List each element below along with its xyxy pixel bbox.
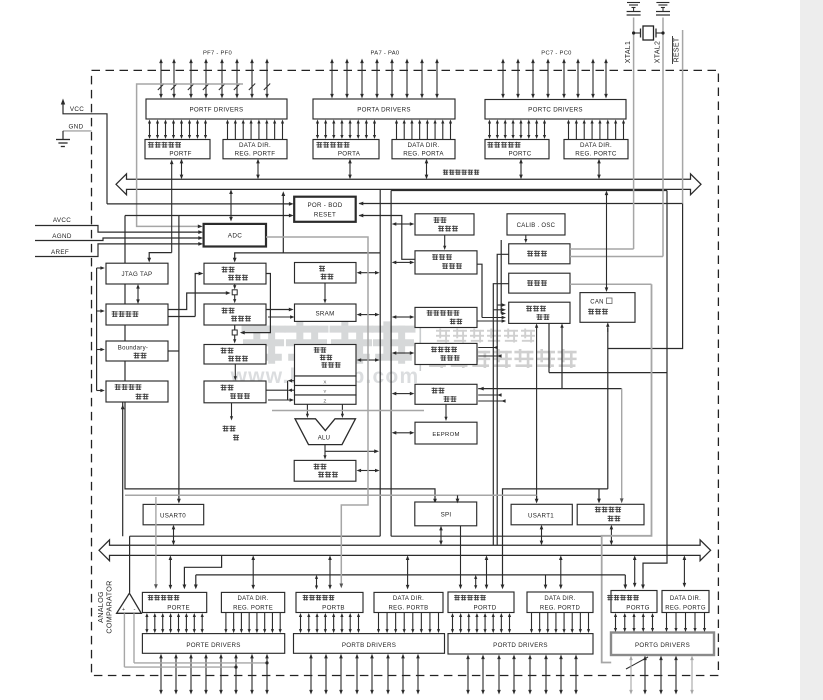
svg-text:RESET: RESET — [674, 37, 681, 62]
calib line to timing — [500, 240, 502, 314]
PORTG data direction register box — [662, 591, 709, 613]
PORTB ddr connector — [407, 559, 409, 586]
PORTD datareg connectors — [460, 526, 462, 586]
timing bottom stub to CAN loop — [548, 323, 550, 372]
svg-text:Z: Z — [323, 398, 326, 403]
registers bottom to sram wires — [268, 399, 291, 401]
xtal1 wire to osc1 — [570, 248, 634, 250]
interrupt to eeprom arrow — [445, 404, 447, 418]
POR line to USART0 wire — [178, 216, 180, 502]
program counter top wire — [235, 253, 381, 260]
svg-text:REG. PORTF: REG. PORTF — [235, 151, 276, 158]
svg-text:PORTB: PORTB — [322, 605, 345, 612]
XTAL2 pin line — [662, 18, 664, 257]
watchdog to timing wire — [477, 264, 482, 317]
PORTB pin arrows — [310, 657, 312, 691]
svg-text:COMPARATOR: COMPARATOR — [105, 580, 114, 633]
svg-text:PC7 - PC0: PC7 - PC0 — [541, 51, 571, 57]
PORTE datareg connectors — [155, 497, 157, 586]
instruction register box — [204, 345, 266, 365]
PORTB data direction register box — [374, 592, 443, 612]
mux square 1 — [234, 284, 236, 286]
JTAG-OCD arrow — [137, 288, 139, 301]
svg-text:PORTD DRIVERS: PORTD DRIVERS — [493, 642, 548, 649]
svg-text:DATA DIR.: DATA DIR. — [670, 596, 701, 602]
gray analog line top — [137, 84, 243, 226]
svg-text:PORTG: PORTG — [626, 605, 649, 612]
comparator triangle — [117, 593, 142, 613]
svg-text:REG. PORTB: REG. PORTB — [389, 606, 429, 612]
gray adc-analog route — [266, 237, 368, 586]
internal bus vertical right — [390, 191, 392, 537]
PORTE reg-driver arrows — [146, 616, 148, 630]
ocd to pc wire — [168, 316, 195, 318]
SPI box — [415, 502, 477, 526]
XTAL2 cap and ground — [656, 2, 669, 4]
svg-text:USART0: USART0 — [160, 513, 186, 520]
PORTE data direction register box — [221, 592, 284, 612]
watchdog to POR-BOD wire — [359, 216, 415, 260]
svg-text:Boundary-: Boundary- — [118, 346, 148, 352]
gray mid line — [272, 410, 424, 412]
bus stub line right — [391, 190, 667, 192]
registers left wires — [287, 381, 289, 400]
PORTG data register box — [611, 591, 657, 613]
stack pointer box — [295, 263, 357, 284]
XTAL1 pin line — [633, 18, 635, 250]
gray distribution line — [125, 494, 537, 496]
svg-text:PORTC: PORTC — [508, 151, 531, 158]
PORTA data register to bus arrow — [349, 162, 351, 175]
registers bus arrow — [360, 359, 376, 361]
can route to bus — [503, 489, 608, 587]
riser to bus — [282, 194, 284, 253]
PORTD pin arrows — [467, 658, 469, 691]
svg-text:USART1: USART1 — [528, 513, 554, 520]
ALU — [295, 419, 356, 445]
ground symbol — [62, 131, 64, 140]
gray clock route to PORTG — [602, 284, 652, 662]
svg-text:PORTA DRIVERS: PORTA DRIVERS — [357, 106, 411, 113]
interrupt unit box — [415, 384, 477, 404]
bus label 8-bit data bus — [443, 170, 448, 175]
bus to ADC arrow — [230, 193, 232, 218]
svg-text:PORTE DRIVERS: PORTE DRIVERS — [186, 642, 240, 649]
svg-text:PORTE: PORTE — [167, 605, 190, 612]
svg-text:SPI: SPI — [441, 512, 452, 519]
programming logic box — [106, 381, 168, 402]
CAN data loop wire — [549, 372, 667, 374]
PORTD data direction register box — [527, 592, 593, 613]
PORTB datareg connectors — [316, 578, 318, 587]
register row Y — [295, 386, 357, 396]
svg-text:PA7 - PA0: PA7 - PA0 — [371, 51, 400, 57]
PORTE ddr connector — [252, 559, 254, 586]
calib osc down wire — [525, 235, 527, 240]
CALIB OSC box — [507, 214, 565, 235]
timing to TWI route — [561, 327, 563, 329]
watchdog timer box — [415, 251, 477, 274]
PORTA data register box — [313, 140, 379, 159]
PORTD reg-driver arrows — [452, 616, 454, 630]
mcu ctrl to timing wire — [477, 320, 503, 322]
svg-text:PF7 - PF0: PF7 - PF0 — [203, 51, 232, 57]
PORTC data direction register box — [564, 140, 628, 159]
svg-text:DATA DIR.: DATA DIR. — [393, 596, 424, 602]
8-bit data bus top — [116, 174, 701, 195]
instruction decoder box — [204, 381, 266, 403]
SPI top arrow from gray — [457, 495, 459, 501]
PORTG ddr connector — [683, 559, 685, 584]
PORTA data direction register box — [392, 140, 455, 159]
svg-text:EEPROM: EEPROM — [432, 432, 459, 438]
VCC to POR-BOD wire — [107, 203, 291, 205]
PORTB data register box — [296, 592, 363, 612]
USART1 bus arrow — [541, 528, 543, 541]
watermark slogan line2 — [428, 349, 447, 368]
pc loop to mux2 wire — [242, 274, 271, 333]
svg-text:PORTC DRIVERS: PORTC DRIVERS — [528, 107, 583, 114]
MCU control bus arrow — [395, 316, 411, 318]
timing and control box — [509, 302, 570, 323]
PORTC data register box — [485, 140, 549, 159]
ALU output to bus wire — [325, 450, 376, 452]
PORTC drivers box — [485, 100, 626, 120]
status register box — [294, 460, 356, 481]
stack to sram arrow — [324, 283, 326, 300]
program counter box — [204, 263, 266, 284]
program flash box — [204, 304, 266, 325]
ir to decoder arrow — [234, 364, 236, 377]
svg-text:XTAL2: XTAL2 — [655, 41, 662, 63]
PORTG drivers box — [611, 633, 714, 656]
PORTC dir register to bus arrow — [598, 162, 600, 175]
watchdog osc bus arrow — [395, 223, 411, 225]
register row X — [295, 376, 357, 386]
POR-BOD RESET box — [294, 197, 356, 222]
svg-text:PORTF: PORTF — [169, 151, 191, 158]
osc1 to timing wire — [497, 254, 509, 545]
timer/counters box — [415, 343, 477, 364]
stack pointer bus arrow — [360, 272, 376, 274]
mux square 2 — [234, 325, 236, 330]
ALU to status register arrow — [324, 445, 326, 457]
svg-text:DATA DIR.: DATA DIR. — [544, 596, 575, 602]
general purpose registers box — [295, 345, 357, 377]
ocd to mux1 wire — [168, 293, 228, 310]
PORTG datareg connector — [634, 559, 636, 584]
watermark separator bar — [420, 327, 422, 371]
PORTD ddr connector — [545, 575, 547, 586]
CAN bottom wire — [607, 326, 609, 332]
svg-text:REG. PORTG: REG. PORTG — [665, 606, 706, 612]
TWI top arrow — [598, 489, 600, 501]
svg-text:CALIB . OSC: CALIB . OSC — [517, 223, 556, 229]
xtal2 wire to osc1 — [570, 256, 663, 258]
MCU control box — [415, 307, 477, 327]
svg-text:DATA DIR.: DATA DIR. — [580, 142, 612, 149]
crystal symbol — [643, 26, 654, 40]
JTAG column left wires — [96, 268, 98, 391]
svg-text:DATA DIR.: DATA DIR. — [237, 596, 268, 602]
oscillator box 1 — [509, 244, 570, 264]
SRAM box — [295, 304, 357, 321]
frame line left — [125, 215, 179, 217]
USART1 box — [511, 504, 572, 525]
RESET pin line — [682, 30, 684, 204]
PORTF datareg to JTAG wire — [171, 163, 173, 253]
program counter left input — [195, 274, 201, 317]
EEPROM bus arrow — [395, 432, 411, 434]
PORTD drivers box — [448, 634, 593, 654]
PORTA pin arrows — [331, 62, 333, 95]
svg-text:VCC: VCC — [70, 106, 84, 113]
PORTE drivers box — [142, 634, 284, 654]
status register bus arrow — [360, 470, 376, 472]
ir to sram wire — [266, 309, 291, 311]
PORTF data register to bus arrow — [181, 162, 183, 175]
PORTA drivers box — [313, 99, 455, 119]
svg-text:XTAL1: XTAL1 — [625, 41, 632, 63]
JTAG TAP box — [106, 263, 168, 284]
TWI bus arrow — [610, 528, 612, 541]
SPI bus arrow — [440, 529, 442, 541]
comparator input routing — [124, 666, 236, 668]
USART0 box — [143, 504, 204, 524]
interrupt bus arrow — [395, 393, 411, 395]
PORTC data register to bus arrow — [520, 162, 522, 175]
boundary-scan box — [106, 341, 168, 361]
USART0 bus arrow — [173, 528, 175, 541]
comparator output line — [129, 536, 131, 593]
bus terminator line left — [130, 535, 381, 537]
EEPROM box — [415, 422, 477, 444]
8-bit data bus bottom — [99, 540, 711, 561]
svg-text:AREF: AREF — [51, 249, 69, 256]
on-chip debug box — [106, 304, 168, 325]
SRAM bus arrow — [360, 314, 376, 316]
PORTE pin arrows — [160, 657, 162, 691]
comparator input wires — [123, 613, 125, 667]
bus terminator line right — [391, 535, 602, 537]
PORTF pin arrows — [160, 62, 162, 95]
PORTF data direction register box — [223, 140, 287, 159]
PORTF reg-driver arrows — [149, 123, 151, 137]
svg-text:AGND: AGND — [52, 233, 72, 240]
register row Z — [295, 395, 357, 404]
svg-text:GND: GND — [69, 124, 84, 131]
svg-text:JTAG TAP: JTAG TAP — [122, 271, 153, 278]
PORTE data register box — [142, 592, 206, 612]
svg-text:-: - — [133, 607, 135, 613]
PORTF dir register to bus arrow — [257, 162, 259, 175]
svg-text:REG. PORTA: REG. PORTA — [403, 151, 444, 158]
internal bus vertical left — [379, 189, 381, 536]
PORTG pin arrows — [630, 659, 632, 691]
PORTF drivers box — [146, 99, 287, 119]
interrupt right arrows — [478, 388, 622, 390]
PORTA dir register to bus arrow — [426, 162, 428, 175]
svg-text:DATA DIR.: DATA DIR. — [239, 142, 271, 149]
PORTG reg-driver arrows — [615, 616, 617, 629]
svg-text:POR - BOD: POR - BOD — [307, 202, 342, 209]
watermark hqchip big text — [245, 325, 282, 360]
svg-text:+: + — [122, 607, 125, 613]
CAN to bus arrow — [606, 194, 608, 288]
svg-text:ADC: ADC — [228, 233, 242, 240]
svg-text:PORTF DRIVERS: PORTF DRIVERS — [190, 106, 244, 113]
PORTC reg-driver arrows — [489, 123, 491, 137]
osc2 gray wire right — [570, 283, 652, 285]
svg-text:PORTD: PORTD — [473, 605, 496, 612]
watermark slogan line1 — [436, 329, 450, 343]
reset route lower — [608, 204, 683, 349]
svg-text:X: X — [323, 380, 326, 385]
svg-text:CAN: CAN — [590, 300, 604, 306]
timer bus arrow — [395, 352, 411, 354]
VCC pin — [61, 99, 65, 105]
svg-text:PORTA: PORTA — [338, 151, 361, 158]
PORTA reg-driver arrows — [317, 123, 319, 137]
watchdog oscillator box — [415, 214, 474, 235]
PORTB drivers box — [294, 634, 445, 654]
io line 2 — [196, 574, 626, 576]
por-bod left input 2 — [179, 215, 291, 217]
svg-text:REG. PORTC: REG. PORTC — [575, 151, 617, 158]
RESET wire to POR-BOD — [359, 203, 683, 205]
chip dashed border — [92, 70, 719, 675]
TWI box — [577, 504, 644, 525]
svg-text:AVCC: AVCC — [53, 217, 71, 224]
oscillator box 2 — [509, 273, 570, 293]
programming logic bottom wire — [122, 402, 124, 536]
svg-text:REG. PORTD: REG. PORTD — [540, 606, 581, 612]
watchdog osc to watchdog arrow — [444, 235, 446, 247]
PORTD data register box — [448, 592, 514, 613]
timer right arrows — [478, 347, 497, 349]
svg-text:Y: Y — [323, 389, 326, 394]
watchdog bus arrow — [395, 261, 411, 263]
control lines label — [231, 403, 233, 418]
osc2 to timing wire — [493, 284, 508, 546]
ADC box — [204, 224, 266, 247]
svg-text:PORTB DRIVERS: PORTB DRIVERS — [342, 642, 396, 649]
svg-text:REG. PORTE: REG. PORTE — [233, 606, 273, 612]
PORTF data register box — [145, 140, 210, 159]
svg-text:SRAM: SRAM — [315, 310, 334, 317]
XTAL1 cap and ground — [627, 2, 640, 4]
PORTC pin arrows — [502, 62, 504, 95]
svg-text:PORTG DRIVERS: PORTG DRIVERS — [635, 642, 690, 649]
decoder to registers wire — [266, 389, 288, 391]
svg-text:ALU: ALU — [318, 436, 331, 442]
io line 1 — [184, 555, 221, 587]
portg slash mark — [626, 657, 648, 669]
registers to ALU arrows — [306, 404, 308, 415]
CAN controller box — [580, 293, 635, 323]
svg-text:DATA DIR.: DATA DIR. — [407, 142, 439, 149]
timing to usart1 wire — [536, 327, 538, 502]
PORTB reg-driver arrows — [300, 616, 302, 630]
svg-text:RESET: RESET — [314, 212, 336, 219]
